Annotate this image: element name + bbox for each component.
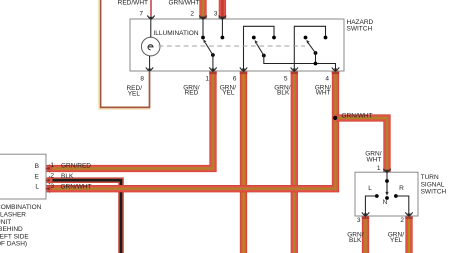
svg-text:FLASHER: FLASHER [0,212,26,219]
svg-text:SIGNAL: SIGNAL [421,181,445,188]
svg-text:8: 8 [140,76,144,83]
flasher pin 2 arrow [46,177,52,184]
svg-text:YEL: YEL [222,90,235,97]
pin 3 arrow [219,16,226,20]
wire GRN/YEL from turn signal pin 2 down [405,216,412,253]
junction node GRN/WHT [333,116,337,120]
wire BLK from flasher pin 2 down to bottom edge [46,180,121,253]
pin 8 arrow [146,67,153,71]
hazard switch pole 1 contacts [201,19,224,71]
svg-text:3: 3 [357,217,361,224]
wire RED/YEL from hazard pin 8 [99,0,150,109]
svg-text:6: 6 [233,76,237,83]
svg-text:BLK: BLK [61,173,74,180]
svg-text:COMBINATION: COMBINATION [0,204,42,211]
svg-text:7: 7 [139,10,143,17]
svg-text:SWITCH: SWITCH [421,189,447,196]
lamp (illumination bulb) [141,19,160,71]
turn signal switch pin 3 arrow [362,212,369,216]
svg-text:2: 2 [400,217,404,224]
svg-text:L: L [35,184,39,191]
turn signal switch pin 1 arrow [383,169,390,173]
svg-text:OF DASH): OF DASH) [0,241,27,248]
svg-text:YEL: YEL [128,90,141,97]
turn signal switch box [355,172,418,216]
wire GRN/RED from flasher pin 1 to hazard pin 1 [46,71,213,169]
svg-text:1: 1 [377,165,381,172]
svg-text:UNIT: UNIT [0,219,11,226]
mechanical link dashed line [159,45,306,47]
svg-text:GRN/WHT: GRN/WHT [342,112,373,119]
svg-text:E: E [35,173,40,180]
svg-text:TURN: TURN [421,174,439,181]
svg-text:4: 4 [325,76,329,83]
svg-text:N: N [383,199,388,206]
flasher unit box [0,154,46,199]
flasher pin 3 arrow [46,185,52,192]
svg-text:2: 2 [190,10,194,17]
svg-text:L: L [368,185,372,192]
svg-text:WHT: WHT [366,157,381,164]
svg-text:WHT: WHT [316,90,331,97]
svg-text:RED/WHT: RED/WHT [118,0,148,7]
svg-text:R: R [399,185,404,192]
svg-text:BLK: BLK [349,237,362,244]
wire GRN/WHT into hazard pin 2 [199,0,206,19]
pin 4 arrow [332,67,339,71]
wire GRN/BLK from turn signal pin 3 down [362,216,369,253]
svg-text:1: 1 [205,76,209,83]
svg-text:GRN/RED: GRN/RED [61,163,91,170]
svg-text:RED: RED [185,90,199,97]
svg-text:3: 3 [214,10,218,17]
wire GRN/WHT into hazard pin 3 [219,0,226,19]
wire GRN/YEL from hazard pin 6 down [240,71,247,253]
svg-text:3: 3 [50,183,54,190]
hazard switch box [130,19,344,71]
svg-text:ILLUMINATION: ILLUMINATION [154,30,199,37]
svg-text:BLK: BLK [277,90,290,97]
svg-text:2: 2 [50,173,54,180]
svg-text:(BEHIND: (BEHIND [0,226,23,233]
hazard switch pole 3 contacts [294,26,327,71]
wire RED/WHT into hazard pin 7 [150,0,152,16]
wire GRN/WHT from flasher pin 3 to hazard pin 4 [46,71,336,189]
svg-text:YEL: YEL [390,237,403,244]
svg-text:SWITCH: SWITCH [347,26,373,33]
pin 2 arrow [199,16,206,20]
svg-text:GRN/WHT: GRN/WHT [61,184,92,191]
pin 1 arrow [209,67,216,71]
svg-text:1: 1 [50,162,54,169]
turn signal switch pin 2 arrow [405,212,412,216]
flasher pin 1 arrow [46,165,52,172]
pin 6 arrow [240,67,247,71]
hazard switch pole 2 contacts [244,26,336,71]
wire GRN/WHT branch from junction to turn signal switch pin 1 [336,118,388,172]
svg-text:GRN/WHT: GRN/WHT [168,0,199,7]
pin 5 arrow [291,67,298,71]
svg-text:B: B [35,163,39,170]
pin 7 arrow [147,16,154,20]
wire GRN/BLK from hazard pin 5 down [291,71,298,253]
wire end caps at connector pins [199,17,412,219]
svg-text:LEFT SIDE: LEFT SIDE [0,233,29,240]
svg-text:5: 5 [284,76,288,83]
turn signal switch contacts [365,172,408,215]
